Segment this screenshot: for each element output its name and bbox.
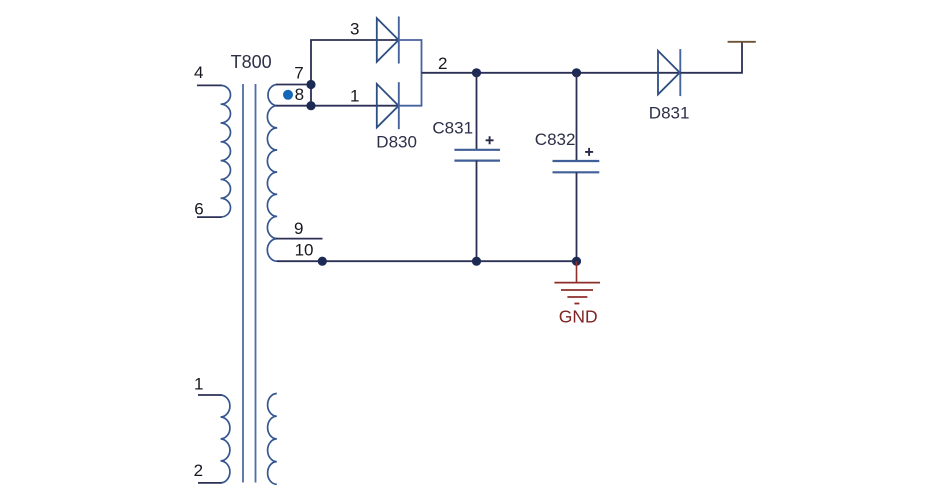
svg-text:D831: D831 [649,103,690,122]
junction dot C831 bottom [472,257,481,266]
svg-text:9: 9 [294,219,303,238]
svg-text:7: 7 [294,64,303,83]
capacitor C831 [454,73,500,261]
svg-text:10: 10 [295,240,314,259]
transformer T800 core [243,84,256,483]
T800 primary winding lower (pins 1-2) [221,395,230,483]
junction dot pin 8 [306,101,315,110]
terminal connector (to next stage) [728,41,756,43]
wire D831 cathode to terminal [680,42,742,73]
T800 primary winding upper (pins 4-6) [221,85,231,217]
dual diode D830 [377,17,422,130]
svg-text:1: 1 [350,87,359,106]
pin 6 lead wire [197,216,222,218]
pin 8 lead wire [276,105,311,107]
svg-text:T800: T800 [231,52,272,72]
svg-text:2: 2 [194,461,203,480]
wire pin 8 to diode input 1 [311,105,399,107]
capacitor C832 [553,73,600,261]
junction dot node2 / C831 [472,68,481,77]
pin 2 lead wire [198,482,222,484]
junction dot pin 7 [306,80,315,89]
pin 1 lead wire [198,394,222,396]
svg-text:6: 6 [194,200,203,219]
diode D831 [658,49,680,96]
svg-text:4: 4 [194,63,203,82]
svg-text:C831: C831 [432,118,473,137]
pin 7 lead wire [276,84,311,86]
junction dot C832 / GND [572,257,581,266]
svg-text:1: 1 [194,374,203,393]
svg-text:C832: C832 [535,130,576,149]
node 2 wire to capacitors and D831 [422,72,681,74]
bottom rail wire [322,260,576,262]
svg-text:3: 3 [350,20,359,39]
polarity dot near pin 8 [283,90,293,100]
svg-text:GND: GND [559,306,598,326]
ground GND [554,261,600,303]
svg-text:2: 2 [438,54,447,73]
pin 10 lead wire [277,260,322,262]
svg-text:D830: D830 [376,132,417,151]
pin 4 lead wire [197,84,222,86]
pin 9 lead wire [276,238,323,240]
T800 secondary winding lower right (no pins) [268,394,277,485]
T800 secondary winding (pins 7-8-9-10) [267,85,277,262]
svg-text:8: 8 [295,85,304,104]
wire pin7/pin8 riser to diode input 3 [311,40,399,106]
junction dot pin 10 [318,257,327,266]
junction dot node2 / C832 [572,68,581,77]
